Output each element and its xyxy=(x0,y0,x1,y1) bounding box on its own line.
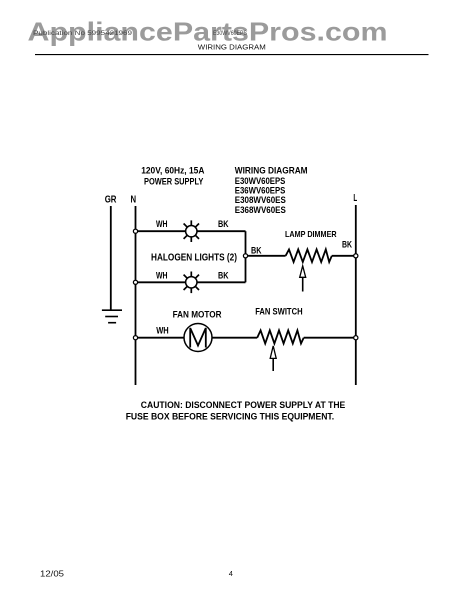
svg-text:WIRING DIAGRAM: WIRING DIAGRAM xyxy=(235,166,308,176)
header rule xyxy=(35,54,429,56)
halogen lamp 2 xyxy=(184,272,199,294)
junction halogen to dimmer xyxy=(243,254,247,258)
node N label xyxy=(131,194,137,206)
wire motor to fan switch xyxy=(212,337,257,339)
wire top halogen branch xyxy=(136,230,246,232)
svg-text:FAN MOTOR: FAN MOTOR xyxy=(173,309,222,319)
junction N bottom branch xyxy=(133,280,137,284)
svg-text:GR: GR xyxy=(105,194,117,206)
svg-text:E30WV60EPS: E30WV60EPS xyxy=(235,176,285,186)
page title WIRING DIAGRAM xyxy=(198,42,266,51)
junction N fan branch xyxy=(133,336,137,340)
model number text xyxy=(213,30,248,37)
svg-text:WH: WH xyxy=(156,270,168,280)
label LAMP DIMMER xyxy=(285,229,337,239)
svg-text:E308WV60ES: E308WV60ES xyxy=(235,195,286,205)
wire N vertical xyxy=(135,206,137,385)
svg-text:L: L xyxy=(353,192,357,204)
svg-text:LAMP DIMMER: LAMP DIMMER xyxy=(285,229,337,239)
label BK bottom xyxy=(218,270,229,280)
svg-text:WIRING DIAGRAM: WIRING DIAGRAM xyxy=(198,42,266,51)
wire fan left xyxy=(136,337,185,339)
fan switch wiper arrow xyxy=(270,346,276,371)
power supply label xyxy=(141,165,205,186)
label HALOGEN LIGHTS (2) xyxy=(151,253,237,264)
label WH top xyxy=(156,219,168,229)
wire bottom halogen branch xyxy=(136,281,246,283)
junction dimmer to L xyxy=(354,254,358,258)
lamp dimmer (variable resistor) xyxy=(286,249,332,262)
svg-text:12/05: 12/05 xyxy=(40,570,65,579)
ground xyxy=(102,310,122,323)
label WH bottom xyxy=(156,270,168,280)
publication number text xyxy=(33,30,132,37)
lamp dimmer wiper arrow xyxy=(300,266,306,292)
halogen lamp 1 xyxy=(184,220,199,242)
diagram title and model list xyxy=(235,166,308,216)
svg-text:WH: WH xyxy=(156,326,169,336)
svg-text:E368WV60ES: E368WV60ES xyxy=(235,205,286,215)
caution text xyxy=(126,400,346,421)
svg-text:FUSE BOX BEFORE SERVICING THIS: FUSE BOX BEFORE SERVICING THIS EQUIPMENT… xyxy=(126,411,334,421)
svg-text:WH: WH xyxy=(156,219,168,229)
svg-text:BK: BK xyxy=(251,245,262,255)
svg-text:Publication No 5995421969: Publication No 5995421969 xyxy=(33,30,132,37)
watermark AppliancePartsPros.com xyxy=(28,16,388,46)
wire dimmer left xyxy=(246,255,286,257)
label BK dimmer left xyxy=(251,245,262,255)
label FAN MOTOR xyxy=(173,309,222,319)
svg-text:HALOGEN LIGHTS (2): HALOGEN LIGHTS (2) xyxy=(151,253,237,264)
svg-text:E30WV60EPS: E30WV60EPS xyxy=(213,30,248,37)
fan motor M xyxy=(184,324,212,352)
wire GR vertical xyxy=(110,206,112,310)
label BK top xyxy=(218,219,229,229)
label BK dimmer right xyxy=(342,239,352,249)
svg-text:N: N xyxy=(131,194,137,206)
svg-text:FAN SWITCH: FAN SWITCH xyxy=(255,306,302,316)
svg-text:BK: BK xyxy=(218,219,229,229)
label FAN SWITCH xyxy=(255,306,302,316)
svg-text:POWER SUPPLY: POWER SUPPLY xyxy=(144,177,203,187)
svg-text:E36WV60EPS: E36WV60EPS xyxy=(235,186,285,196)
wire fan switch to L xyxy=(304,337,356,339)
svg-text:BK: BK xyxy=(218,270,229,280)
svg-text:CAUTION: DISCONNECT POWER SUPP: CAUTION: DISCONNECT POWER SUPPLY AT THE xyxy=(141,400,345,410)
node L label xyxy=(353,192,357,204)
svg-text:4: 4 xyxy=(229,569,233,578)
footer page number xyxy=(229,569,233,578)
footer date xyxy=(40,570,65,579)
junction fan to L xyxy=(354,336,358,340)
svg-text:BK: BK xyxy=(342,239,352,249)
label WH fan xyxy=(156,326,169,336)
fan switch (variable resistor) xyxy=(257,330,304,343)
node GR label xyxy=(105,194,117,206)
wire L vertical xyxy=(355,205,357,385)
svg-text:120V, 60Hz, 15A: 120V, 60Hz, 15A xyxy=(141,165,205,175)
junction N top branch xyxy=(133,229,137,233)
wire dimmer right xyxy=(332,255,356,257)
wire halogen right edge xyxy=(245,231,247,282)
